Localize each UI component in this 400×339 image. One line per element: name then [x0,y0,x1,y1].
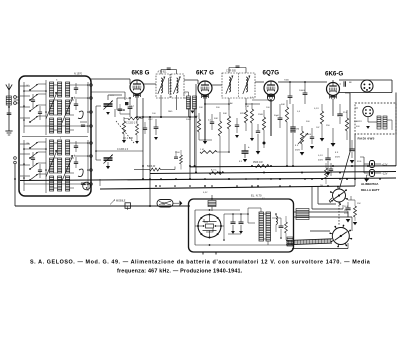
svg-text:6K8 G: 6K8 G [132,70,150,77]
svg-text:−12V: −12V [382,173,388,176]
svg-text:5000: 5000 [186,119,192,121]
svg-text:N 1970: N 1970 [74,73,83,76]
svg-text:6Q7G: 6Q7G [263,70,280,77]
svg-text:EL. N.70: EL. N.70 [251,194,262,198]
svg-text:5PF: 5PF [240,113,245,115]
svg-text:A 70 911: A 70 911 [158,71,168,74]
svg-text:500K W: 500K W [147,166,156,168]
svg-text:0,1 F: 0,1 F [314,108,320,110]
svg-text:1 M: 1 M [200,149,204,151]
svg-text:S. A. GELOSO. — Mod. G. 49. —: S. A. GELOSO. — Mod. G. 49. — Alimentazi… [30,260,371,266]
svg-text:50K: 50K [223,113,227,115]
svg-text:DELLA BATT: DELLA BATT [361,188,380,192]
svg-text:6K7 G: 6K7 G [196,70,214,77]
svg-text:A.V.C.: A.V.C. [211,169,218,172]
svg-text:OSC: OSC [148,119,153,121]
svg-text:20K: 20K [199,107,203,109]
svg-text:frequenza: 467 kHz. — Produzio: frequenza: 467 kHz. — Produzione 1940-19… [117,269,243,275]
svg-text:10000: 10000 [305,134,312,136]
svg-text:MOBILE: MOBILE [116,200,126,203]
svg-text:0,1 F: 0,1 F [318,155,324,157]
svg-text:450V: 450V [335,157,341,159]
svg-text:10 F: 10 F [344,206,349,208]
svg-text:C 1153 1 F: C 1153 1 F [117,149,129,151]
svg-text:CAMPO: CAMPO [354,120,362,123]
svg-text:400V: 400V [318,160,324,162]
svg-text:6,3V: 6,3V [203,192,208,194]
svg-text:+12V: +12V [382,164,388,167]
svg-text:(C) n 948: (C) n 948 [123,138,133,140]
svg-text:ALIMENTAZ.: ALIMENTAZ. [361,182,379,186]
svg-text:450V: 450V [295,150,301,152]
svg-text:15K: 15K [357,203,361,205]
svg-text:250K: 250K [258,114,264,116]
svg-text:OM: OM [26,143,30,145]
svg-text:50K: 50K [281,104,285,106]
svg-text:25 F: 25 F [343,112,348,114]
svg-text:10000: 10000 [299,90,306,92]
svg-text:C TR 935: C TR 935 [226,71,237,73]
svg-text:50pF: 50pF [274,115,280,117]
svg-text:50K: 50K [214,118,218,120]
svg-text:6K6-G: 6K6-G [325,71,343,78]
svg-text:C 1153 1 F: C 1153 1 F [126,123,138,125]
svg-text:1M: 1M [296,129,299,131]
svg-text:1 M: 1 M [245,106,249,108]
svg-text:7000: 7000 [284,80,290,82]
svg-text:RADI 6W5: RADI 6W5 [358,137,375,141]
svg-text:FUS: FUS [357,161,362,163]
svg-text:C.V.: C.V. [110,95,114,97]
svg-text:350K 1W: 350K 1W [253,162,263,164]
svg-text:PAD: PAD [168,110,173,113]
